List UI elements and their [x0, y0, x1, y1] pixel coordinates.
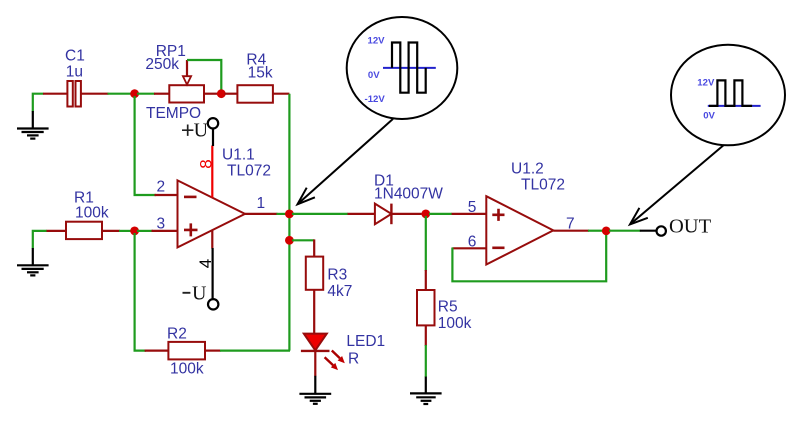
- arrow from scope1 to output node: [298, 119, 394, 204]
- U1.1 plus input mark: [184, 223, 198, 236]
- wire pin 2: [155, 194, 178, 196]
- diode D1: [375, 204, 392, 225]
- scope circle 1: [347, 17, 458, 119]
- wire R4 right pin: [273, 93, 290, 95]
- scope circle 2: [671, 45, 785, 146]
- svg-text:R3: R3: [327, 267, 347, 284]
- wire D1 right pin: [391, 213, 421, 215]
- wire R3 bottom pin to LED: [313, 290, 315, 334]
- LED1 bottom pin: [314, 351, 316, 376]
- wire R5 top pin: [425, 270, 427, 290]
- svg-text:U1.1: U1.1: [222, 146, 255, 163]
- scope2 zero line: [708, 105, 761, 107]
- U1.2 minus input mark: [492, 247, 504, 250]
- resistor R1: [66, 222, 102, 239]
- wire output node to D1: [292, 213, 348, 215]
- svg-text:TL072: TL072: [521, 177, 565, 194]
- wire R1 left pin: [47, 230, 67, 232]
- LED1 cathode bar: [301, 350, 330, 352]
- op-amp U1.1: [178, 180, 246, 247]
- wire node to pin3: [137, 230, 153, 232]
- svg-text:2: 2: [157, 178, 166, 195]
- wire R1 to node: [119, 230, 132, 232]
- LED1 arrow a: [332, 351, 345, 364]
- -U port stem: [212, 248, 214, 299]
- svg-text:3: 3: [157, 215, 166, 232]
- wire R3 top pin: [313, 239, 315, 257]
- wire R2 left pin: [145, 350, 169, 352]
- wire C1 left pin: [43, 93, 67, 95]
- wire node to pin5: [429, 213, 452, 215]
- node junction output U1.2: [602, 227, 611, 236]
- wire node to OUT: [609, 230, 640, 232]
- scope1 square wave: [392, 43, 426, 93]
- wire R5 bottom pin: [425, 325, 427, 346]
- wire node down to pin2: [135, 96, 156, 195]
- svg-text:1: 1: [257, 195, 266, 212]
- resistor R3: [306, 257, 323, 290]
- node junction R3 branch: [285, 236, 294, 245]
- U1.2 plus input mark: [492, 209, 504, 221]
- svg-text:4k7: 4k7: [327, 283, 352, 300]
- -U label: [183, 283, 208, 305]
- svg-text:R2: R2: [167, 325, 187, 342]
- wire R2 right pin: [205, 350, 221, 352]
- scope1 zero line: [383, 67, 436, 69]
- svg-text:0V: 0V: [368, 70, 380, 81]
- wire D1 left pin: [348, 213, 375, 215]
- svg-text:12V: 12V: [368, 35, 386, 46]
- svg-text:100k: 100k: [75, 205, 109, 222]
- RP1 wiper stem: [186, 60, 188, 76]
- wire U1.1 output pin: [245, 213, 278, 215]
- svg-text:TL072: TL072: [227, 162, 271, 179]
- wire node to RP1: [137, 93, 155, 95]
- +U port circle: [208, 118, 218, 128]
- wire long vertical right bus: [288, 94, 290, 351]
- arrow from scope2 to OUT wire: [630, 145, 724, 224]
- node junction: [217, 89, 226, 98]
- svg-text:0V: 0V: [703, 111, 715, 122]
- wire output to node: [277, 213, 287, 215]
- wire RP1 right pin: [204, 93, 218, 95]
- svg-text:U1.2: U1.2: [511, 160, 544, 177]
- D1 cathode bar: [390, 204, 392, 225]
- LED1 arrow b: [325, 357, 338, 370]
- resistor R4: [237, 85, 273, 103]
- svg-text:1u: 1u: [66, 63, 83, 80]
- node junction: [130, 89, 139, 98]
- svg-text:OUT: OUT: [669, 216, 712, 238]
- resistor R2: [168, 342, 205, 360]
- svg-text:U: U: [192, 283, 207, 305]
- svg-text:100k: 100k: [170, 360, 204, 377]
- wire R1 right pin: [102, 230, 120, 232]
- wire RP1 left pin: [154, 93, 169, 95]
- svg-text:15k: 15k: [248, 64, 273, 81]
- svg-text:U: U: [194, 120, 209, 142]
- +U label: [182, 120, 209, 142]
- wire R2 to right bus: [220, 350, 290, 352]
- OUT port circle: [657, 226, 666, 235]
- svg-text:C1: C1: [65, 47, 85, 64]
- wire U1.2 output pin: [553, 230, 589, 232]
- svg-text:12V: 12V: [697, 77, 715, 88]
- svg-text:250k: 250k: [145, 56, 179, 73]
- wire C1 to node: [108, 93, 133, 95]
- RP1 wiper arrow: [183, 76, 191, 84]
- node junction: [130, 227, 139, 236]
- LED LED1 triangle: [304, 334, 327, 351]
- ground: [299, 376, 331, 404]
- +U port stem: [212, 129, 214, 146]
- U1.1 minus input mark: [184, 196, 197, 199]
- wire output to node: [588, 230, 603, 232]
- svg-text:R: R: [348, 350, 359, 367]
- node junction D1/R5: [421, 210, 430, 219]
- pin 8 line highlighted: [211, 146, 213, 198]
- wire pin 3: [152, 230, 178, 232]
- svg-text:100k: 100k: [438, 315, 472, 332]
- op-amp U1.2: [486, 196, 553, 264]
- wire feedback loop: [452, 234, 606, 281]
- capacitor C1: [67, 81, 81, 107]
- -U port circle: [208, 299, 218, 309]
- ground: [17, 111, 49, 139]
- wire node to R3: [292, 239, 314, 241]
- svg-text:LED1: LED1: [346, 333, 385, 350]
- wire wiper loop: [187, 60, 221, 90]
- scope2 pulse wave: [709, 80, 752, 106]
- ground: [33, 231, 47, 249]
- svg-text:8: 8: [197, 159, 216, 168]
- wire pin 5: [452, 213, 487, 215]
- svg-text:5: 5: [468, 199, 477, 216]
- pin 4 line: [211, 231, 213, 249]
- resistor R5: [417, 290, 435, 325]
- svg-text:1N4007W: 1N4007W: [374, 185, 443, 202]
- wire node down to R5: [425, 216, 427, 271]
- wire pin 6: [452, 247, 486, 249]
- wire R5 to ground: [425, 345, 427, 377]
- svg-text:-12V: -12V: [365, 94, 386, 105]
- wire top row left of C1: [33, 94, 44, 112]
- ground: [410, 377, 442, 404]
- wire C1 right pin: [81, 93, 109, 95]
- svg-text:R5: R5: [438, 299, 458, 316]
- node junction output U1.1: [285, 210, 294, 219]
- OUT port stem: [640, 230, 657, 232]
- potentiometer RP1: [169, 85, 204, 102]
- wire node to R4: [225, 93, 238, 95]
- wire node down to R2: [135, 233, 146, 351]
